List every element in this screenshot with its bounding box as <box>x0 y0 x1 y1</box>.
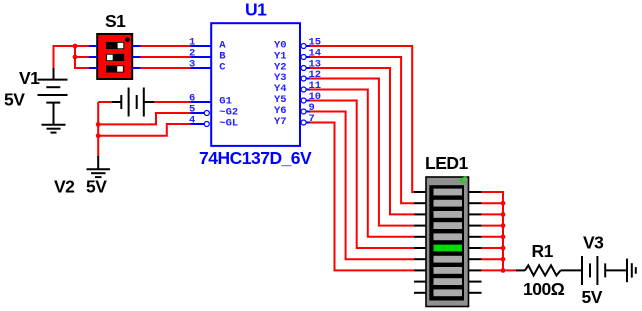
junction bus pin6 <box>501 246 506 251</box>
svg-text:Y7: Y7 <box>274 116 287 128</box>
LED1 segment 8 <box>434 267 463 274</box>
wire V2 right to U1 pin6 <box>154 101 191 103</box>
switch S1 toggle row2 <box>106 54 124 61</box>
ground right of V3 <box>627 259 636 283</box>
wire LED1 pin7 right to bus <box>482 258 504 260</box>
wire junction B down and right to S1 row3 <box>75 57 89 68</box>
svg-text:4: 4 <box>189 115 195 127</box>
LED1 segment 2 <box>434 200 463 207</box>
U1 pin 6 stub <box>191 101 212 103</box>
U1 pin 14 bubble and stub <box>301 55 306 60</box>
wire LED1 pin4 right to bus <box>482 225 504 227</box>
U1 pin 15 bubble and stub <box>301 44 306 49</box>
U1 pin 2 stub <box>191 56 212 58</box>
IC U1 74HC137D_6V box <box>211 23 300 146</box>
wire LED1 pin2 right to bus <box>482 202 504 204</box>
U1 pin 13 bubble and stub <box>301 66 306 71</box>
svg-text:5V: 5V <box>86 177 107 197</box>
wire Y7 net: U1 pin7 to LED1 pin8 <box>310 123 414 271</box>
svg-text:100Ω: 100Ω <box>523 279 565 299</box>
wire Y5 net: U1 pin10 to LED1 pin6 <box>310 101 414 249</box>
junction bus pin7 <box>501 257 506 262</box>
LED1 segment 9 <box>434 278 463 285</box>
LED1 left pin stubs <box>414 192 426 293</box>
junction C <box>96 122 101 127</box>
wire V1 top to junction A <box>54 46 76 68</box>
svg-text:5V: 5V <box>4 90 25 110</box>
ground below V1 <box>42 125 66 133</box>
U1 pin 1 stub <box>191 45 212 47</box>
wire junction A to S1 row1 <box>75 45 89 47</box>
junction A <box>73 44 78 49</box>
battery V1 <box>38 68 68 125</box>
LED1 segment 10 <box>434 289 463 296</box>
svg-text:V2: V2 <box>54 177 75 197</box>
switch S1 toggle row1 <box>106 42 124 49</box>
LED1 segment 7 <box>434 256 463 263</box>
svg-text:5V: 5V <box>582 287 603 307</box>
switch S1 pin-1 marker dot <box>125 37 130 42</box>
LED1 inner window <box>429 185 464 300</box>
LED1 polarity arrow <box>460 177 467 184</box>
switch S1 body <box>97 34 132 79</box>
svg-text:C: C <box>219 62 226 74</box>
wire LED1 pin5 right to bus <box>482 236 504 238</box>
wire LED1 pin1 right to bus <box>482 192 504 203</box>
wire Y3 net: U1 pin12 to LED1 pin4 <box>310 79 414 226</box>
wire junction C to U1 pin5 <box>98 113 190 124</box>
wire S1 row2 to U1 pin2 <box>141 56 191 58</box>
battery V2 <box>111 88 155 117</box>
junction D <box>96 133 101 138</box>
resistor R1 <box>516 265 582 275</box>
wire junction A down to junction B <box>74 46 76 57</box>
junction bus pin5 <box>501 234 506 239</box>
wire Y2 net: U1 pin13 to LED1 pin3 <box>310 68 414 214</box>
junction bus pin3 <box>501 212 506 217</box>
LED1 segment 6 lit <box>434 245 463 252</box>
wire common bus vertical <box>502 203 504 270</box>
U1 pin 9 bubble and stub <box>301 109 306 114</box>
switch S1 right pin stubs <box>132 46 140 68</box>
LED1 bargraph body <box>426 177 469 307</box>
wire V2 left to ground drop <box>98 101 112 103</box>
U1 pin 5 stub with bubble <box>191 112 205 114</box>
wire Y1 net: U1 pin14 to LED1 pin2 <box>310 57 414 203</box>
U1 pin 12 bubble and stub <box>301 76 306 81</box>
svg-text:R1: R1 <box>532 241 554 261</box>
wire junction D to U1 pin4 <box>98 124 190 136</box>
LED1 segment 1 <box>434 189 463 196</box>
svg-text:~GL: ~GL <box>219 117 238 129</box>
wire junction B to S1 row2 <box>75 56 89 58</box>
switch S1 toggle row3 <box>106 65 124 72</box>
wire Y6 net: U1 pin9 to LED1 pin7 <box>310 112 414 260</box>
LED1 segment 4 <box>434 222 463 229</box>
svg-text:3: 3 <box>189 59 195 71</box>
wire LED1 pin8 right to bus <box>482 269 504 271</box>
svg-text:LED1: LED1 <box>425 153 469 173</box>
wire Y0 net: U1 pin15 to LED1 pin1 <box>310 46 414 192</box>
junction bus pin2 <box>501 201 506 206</box>
svg-text:V3: V3 <box>583 233 604 253</box>
U1 pin 4 stub with bubble <box>191 123 205 125</box>
svg-text:U1: U1 <box>245 0 267 20</box>
wire LED1 pin3 right to bus <box>482 213 504 215</box>
ground below V2 <box>87 156 111 177</box>
wire S1 row1 to U1 pin1 <box>141 45 191 47</box>
battery V3 <box>582 256 627 285</box>
wire S1 row3 to U1 pin3 <box>141 67 191 69</box>
U1 pin 3 stub <box>191 67 212 69</box>
wire bus to R1 <box>503 269 517 271</box>
svg-text:S1: S1 <box>105 11 126 31</box>
wire LED1 pin6 right to bus <box>482 247 504 249</box>
switch S1 left pin stubs <box>89 46 97 68</box>
U1 pin 10 bubble and stub <box>301 98 306 103</box>
U1 pin 7 bubble and stub <box>301 120 306 125</box>
svg-text:V1: V1 <box>19 68 40 88</box>
svg-text:74HC137D_6V: 74HC137D_6V <box>199 148 312 168</box>
wire Y4 net: U1 pin11 to LED1 pin5 <box>310 90 414 237</box>
junction bus bottom <box>501 268 506 273</box>
junction bus pin4 <box>501 223 506 228</box>
wire V2 vertical to ground <box>97 102 99 157</box>
LED1 segment 5 <box>434 233 463 240</box>
junction B <box>73 55 78 60</box>
LED1 right pin stubs <box>469 192 482 293</box>
U1 pin 11 bubble and stub <box>301 87 306 92</box>
LED1 segment 3 <box>434 211 463 218</box>
